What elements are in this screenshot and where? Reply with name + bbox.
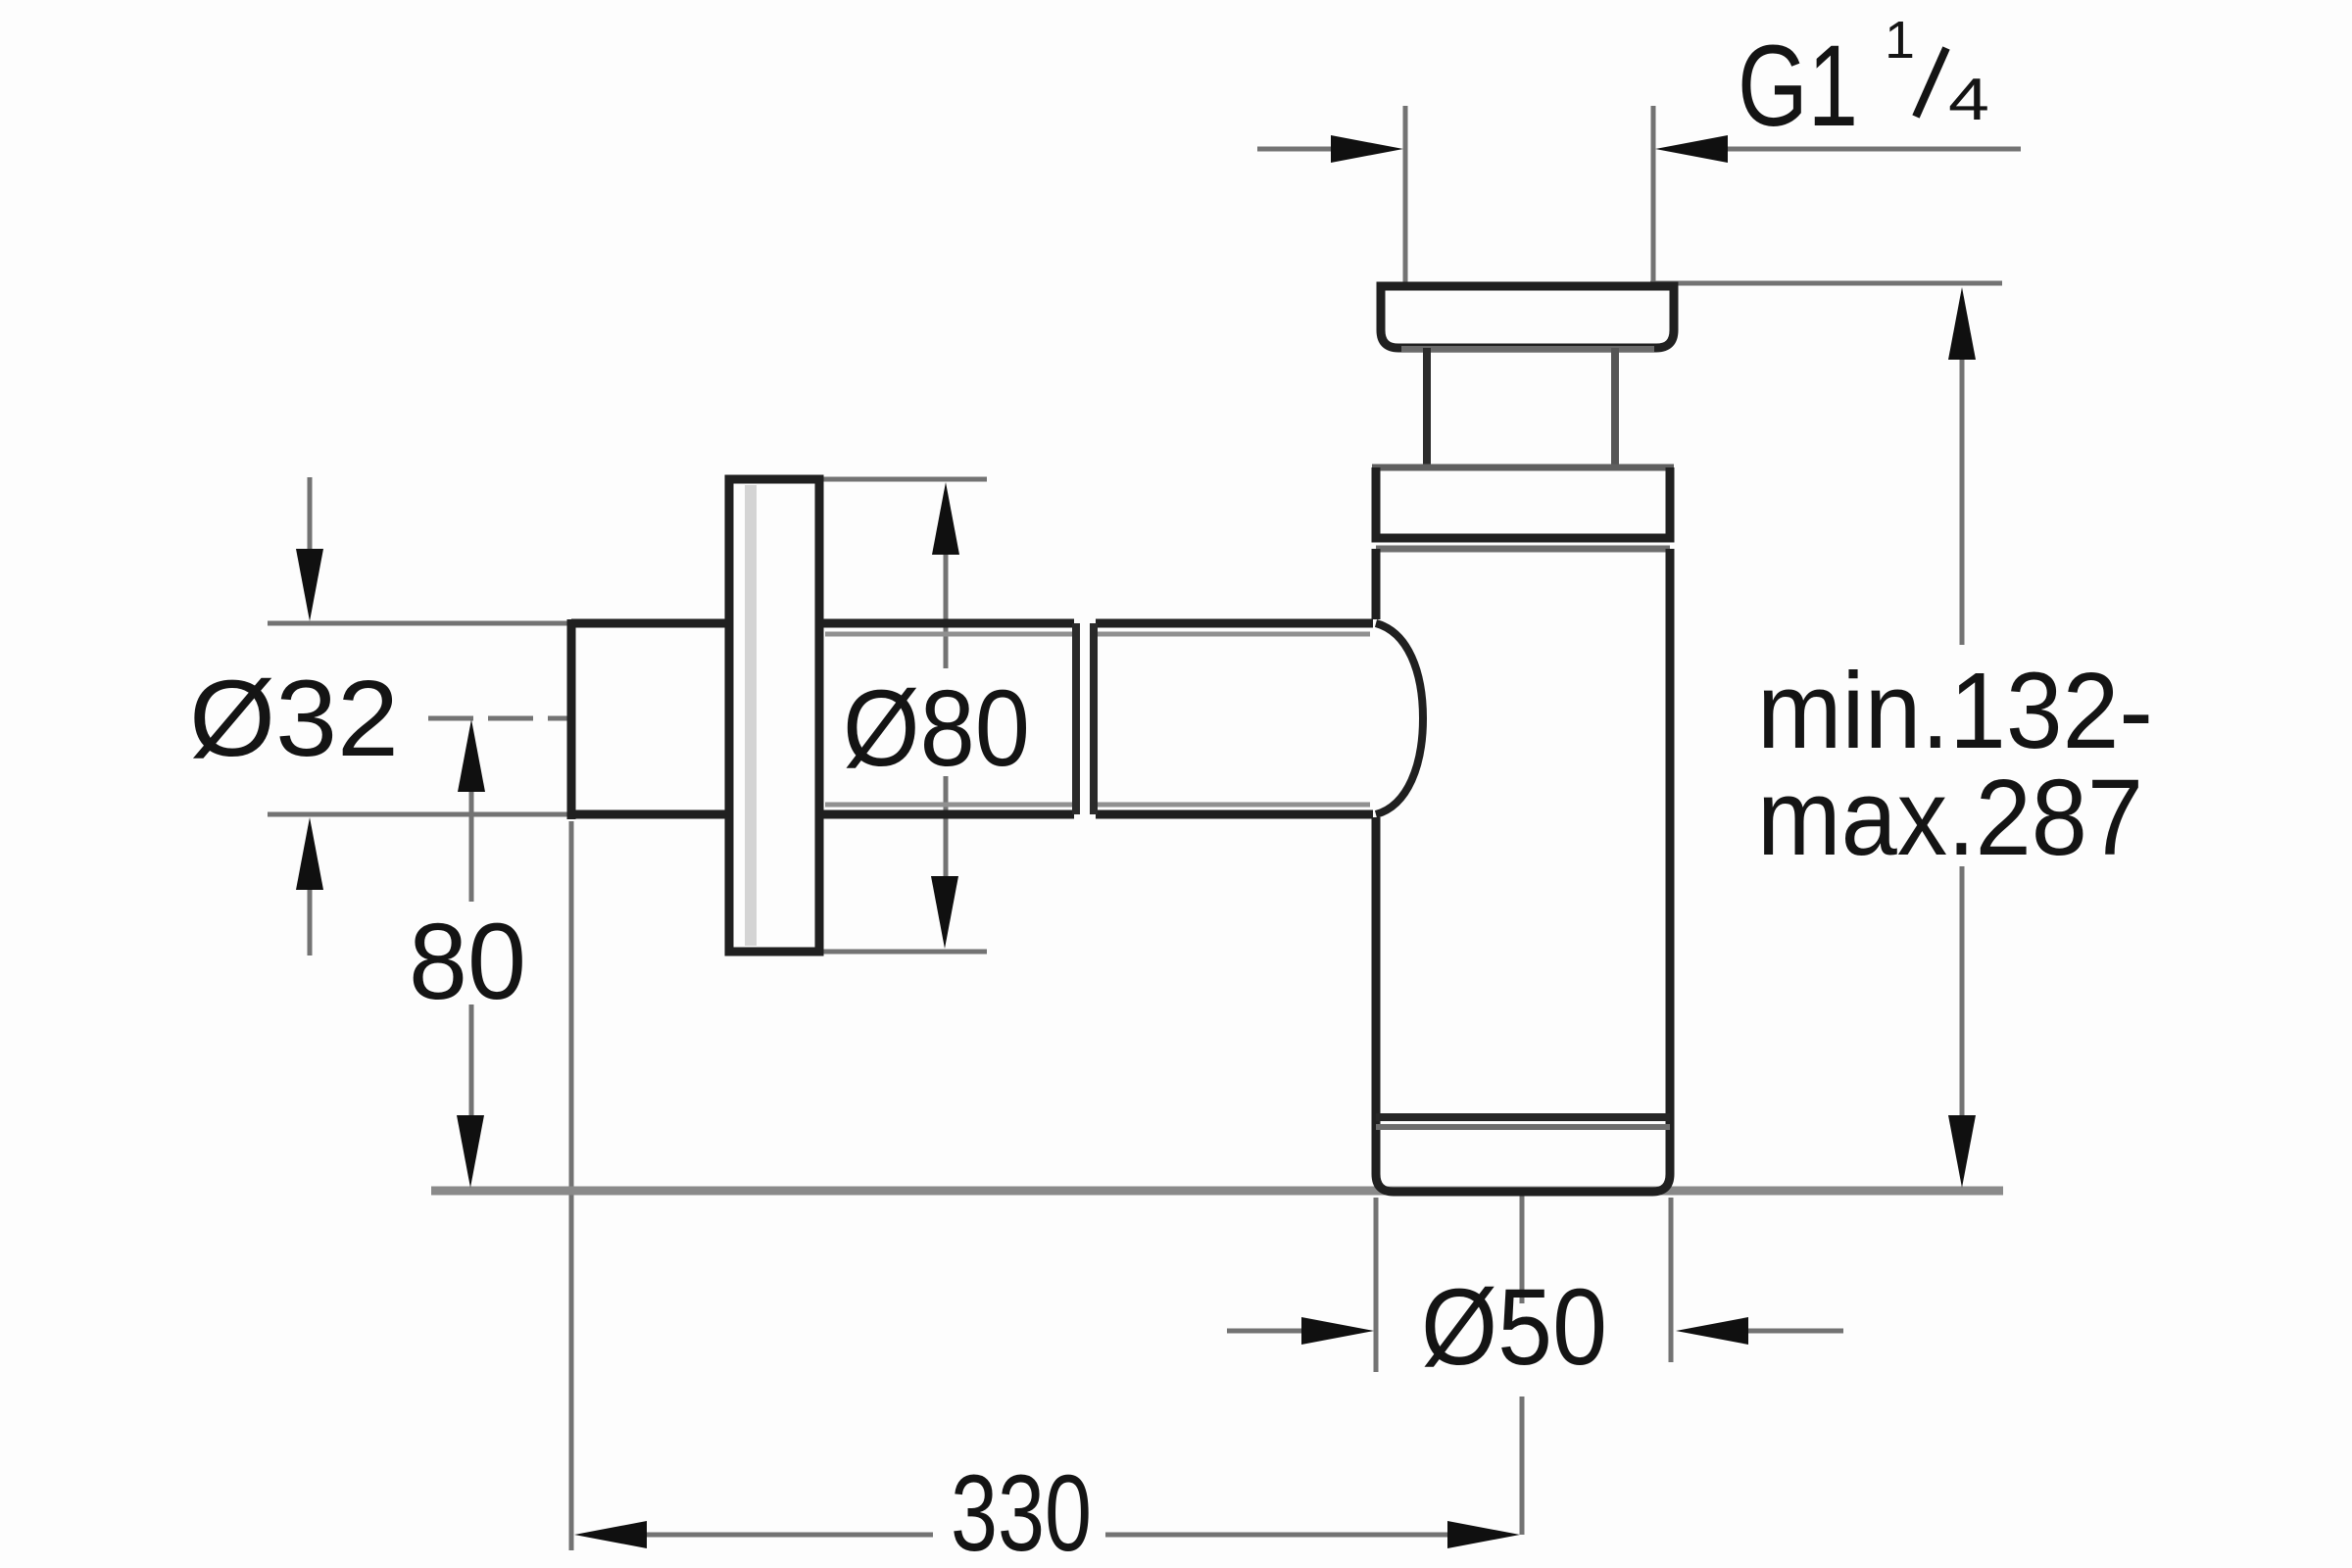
svg-text:Ø50: Ø50 xyxy=(1421,1267,1607,1388)
svg-text:4: 4 xyxy=(1948,67,1989,132)
svg-text:max.287: max.287 xyxy=(1757,758,2143,878)
svg-text:1: 1 xyxy=(1885,11,1915,70)
svg-text:G1: G1 xyxy=(1738,22,1858,151)
svg-text:Ø32: Ø32 xyxy=(189,659,399,779)
svg-text:min.132-: min.132- xyxy=(1757,651,2153,771)
svg-text:330: 330 xyxy=(951,1453,1092,1568)
svg-text:Ø80: Ø80 xyxy=(843,668,1030,789)
svg-text:80: 80 xyxy=(409,902,526,1022)
